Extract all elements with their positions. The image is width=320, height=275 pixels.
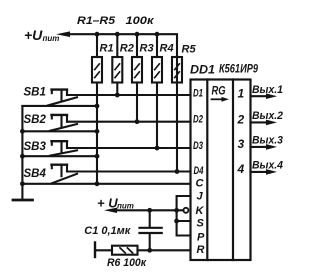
junction rail-R4 (155, 32, 160, 37)
junction SB1-R2 (D1 net) (115, 93, 120, 98)
svg-text:4: 4 (237, 162, 245, 176)
svg-text:S: S (197, 218, 205, 230)
junction C1 tap (147, 208, 152, 213)
node +Upit bottom label (97, 196, 134, 211)
shift direction arrow (212, 97, 230, 102)
junction SB3-common (95, 154, 100, 159)
svg-text:2: 2 (237, 113, 245, 127)
wire R6 to R pin (138, 249, 191, 251)
svg-text:1: 1 (238, 86, 245, 100)
svg-text:пит: пит (43, 34, 60, 43)
wire R1 lead down (common column) (96, 83, 98, 184)
junction SB2-R3 (D2 net) (135, 119, 140, 124)
svg-text:+U: +U (24, 27, 43, 43)
inversion bubble on K pin (183, 208, 188, 213)
svg-text:R5: R5 (182, 44, 197, 56)
junction rail-SB3 (20, 154, 25, 159)
svg-text:R1–R5: R1–R5 (77, 15, 116, 27)
svg-text:D4: D4 (194, 165, 204, 177)
junction SB3-R4 (D3 net) (155, 146, 160, 151)
svg-text:SB4: SB4 (24, 168, 47, 180)
junction SB4-R5 (D4 net) (175, 169, 180, 174)
junction C1-R6-R (147, 248, 152, 253)
output Vyh.2 (251, 110, 284, 125)
svg-text:SB1: SB1 (24, 87, 46, 99)
wire R4 lead down (156, 83, 158, 149)
resistor R6 (95, 243, 138, 258)
resistor R5 (172, 44, 196, 83)
svg-text:K: K (196, 205, 205, 217)
junction rail-SB4 (20, 181, 25, 186)
svg-text:Вых.2: Вых.2 (252, 110, 283, 122)
svg-text:R: R (197, 244, 205, 256)
output Vyh.1 (251, 84, 284, 99)
junction rail-SB2 (20, 129, 25, 134)
wire R5 lead down (176, 57, 178, 172)
output Vyh.3 (251, 135, 284, 150)
junction SB4-common (95, 181, 100, 186)
wire R2 lead down (116, 83, 118, 96)
junction rail-R1 (95, 32, 100, 37)
svg-text:3: 3 (238, 137, 245, 151)
wire common to C input (97, 183, 191, 185)
svg-text:R3: R3 (140, 43, 154, 55)
svg-text:Вых.1: Вых.1 (252, 84, 283, 96)
ground chassis symbol (13, 184, 33, 200)
junction rail-R3 (135, 32, 140, 37)
svg-text:SB3: SB3 (24, 141, 47, 153)
pushbutton SB3 (22, 141, 190, 156)
junction SB2-common (95, 129, 100, 134)
svg-text:R4: R4 (160, 43, 174, 55)
wire R3 lead down (136, 83, 138, 122)
svg-text:пит: пит (117, 202, 134, 211)
resistor R4 (152, 34, 174, 82)
pushbutton SB4 (22, 165, 190, 184)
svg-text:DD1: DD1 (190, 63, 215, 77)
svg-text:J: J (197, 191, 204, 203)
svg-text:100к: 100к (126, 15, 156, 27)
svg-text:R6 100к: R6 100к (107, 257, 147, 269)
svg-text:R1: R1 (100, 43, 114, 55)
svg-text:P: P (197, 232, 205, 244)
svg-text:RG: RG (212, 84, 226, 98)
pushbutton SB1 (22, 87, 190, 106)
IC DD1 K561IR9 body (191, 80, 251, 261)
svg-text:SB2: SB2 (24, 114, 47, 126)
svg-text:D3: D3 (193, 140, 203, 152)
pushbutton SB2 (22, 114, 190, 131)
wire left common rail (21, 106, 23, 184)
svg-text:К561ИР9: К561ИР9 (219, 62, 258, 76)
svg-text:C1 0,1мк: C1 0,1мк (84, 225, 131, 237)
junction bracket-S (174, 219, 179, 224)
junction SB1-common (95, 104, 100, 109)
svg-text:R2: R2 (120, 43, 134, 55)
wire S stub (177, 220, 191, 222)
resistor R3 (132, 34, 154, 82)
power arrow top (points left) (56, 31, 70, 37)
junction rail-R2 (115, 32, 120, 37)
wire J-K-S-P tie bracket (177, 196, 191, 236)
wire +Upit bottom to K (115, 209, 177, 211)
wire +Upit top rail (68, 34, 177, 57)
wire K stub (177, 209, 184, 211)
svg-text:C: C (196, 178, 205, 190)
svg-text:Вых.4: Вых.4 (252, 160, 283, 172)
output Vyh.4 (251, 160, 284, 175)
power arrow bottom (points left) (104, 208, 117, 213)
capacitor C1 (140, 210, 162, 250)
svg-text:Вых.3: Вых.3 (252, 135, 283, 147)
node +Upit top label (24, 27, 59, 43)
svg-text:D2: D2 (193, 114, 203, 126)
svg-text:D1: D1 (193, 88, 203, 100)
resistor R2 (112, 34, 134, 82)
junction bracket-K (174, 208, 179, 213)
resistor R1 (92, 34, 114, 82)
